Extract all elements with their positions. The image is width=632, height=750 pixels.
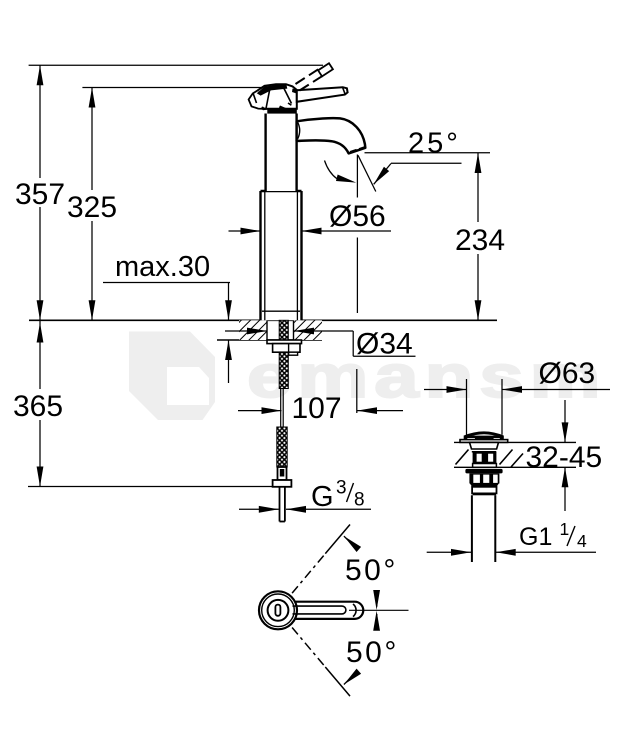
svg-text:32-45: 32-45 [526,441,603,474]
svg-text:8: 8 [354,490,365,511]
svg-text:3: 3 [336,478,347,499]
svg-text:25°: 25° [408,128,461,160]
svg-text:4: 4 [577,531,587,551]
svg-text:Ø63: Ø63 [539,357,596,390]
svg-text:50°: 50° [345,554,398,587]
svg-text:357: 357 [15,178,65,211]
svg-text:50°: 50° [346,636,399,669]
svg-text:107: 107 [292,392,342,425]
svg-text:Ø34: Ø34 [356,328,413,361]
svg-text:G: G [311,481,334,513]
svg-text:G1: G1 [519,523,552,551]
svg-text:365: 365 [13,390,63,423]
svg-text:234: 234 [455,224,505,257]
svg-text:Ø56: Ø56 [329,200,386,233]
svg-text:1: 1 [560,519,570,539]
svg-text:max.30: max.30 [115,251,210,283]
svg-text:325: 325 [67,191,117,224]
